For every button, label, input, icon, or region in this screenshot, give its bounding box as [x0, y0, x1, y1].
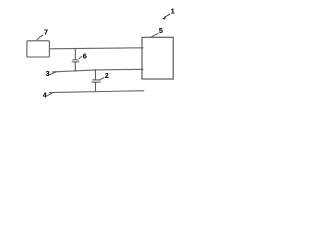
leader for 4: [47, 93, 53, 96]
capacitor C2: [91, 70, 100, 92]
svg-text:7: 7: [44, 27, 48, 36]
box 7: [27, 41, 50, 57]
svg-text:2: 2: [105, 71, 109, 80]
leader for 7: [37, 35, 44, 40]
arrow for 1: [164, 14, 170, 17]
wire box7 to box5: [49, 48, 143, 49]
svg-text:4: 4: [43, 90, 47, 99]
leader for 3: [50, 72, 57, 75]
leader for 6: [79, 56, 82, 59]
leader for 2: [100, 78, 105, 81]
junction node cap6/line3: [74, 70, 76, 72]
wire line 4: [49, 91, 144, 93]
svg-text:1: 1: [171, 7, 175, 16]
svg-text:3: 3: [46, 69, 50, 78]
leader for 5: [151, 34, 158, 38]
svg-text:5: 5: [159, 26, 163, 35]
junction node cap2/line3: [95, 69, 97, 71]
box 5: [142, 37, 173, 79]
wire line 3: [52, 69, 144, 72]
svg-text:6: 6: [83, 51, 87, 60]
capacitor C6: [72, 48, 80, 71]
